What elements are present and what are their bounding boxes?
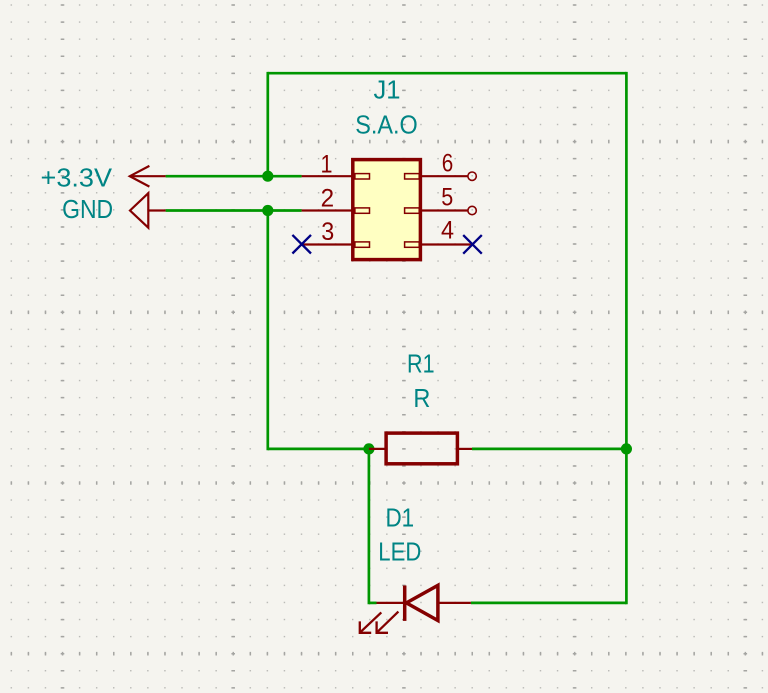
wire segment top horizontal	[268, 72, 627, 75]
connector J1 pin 1 notch	[355, 174, 370, 179]
wire segment right vertical	[625, 73, 628, 603]
resistor R1 right pin	[457, 448, 472, 450]
connector J1 pin 2 notch	[355, 208, 370, 213]
connector J1 body	[353, 160, 421, 260]
svg-text:3: 3	[321, 218, 334, 246]
svg-text:+3.3V: +3.3V	[41, 163, 113, 193]
svg-text:D1: D1	[385, 502, 414, 532]
connector J1 pin 3 notch	[355, 242, 370, 247]
svg-text:6: 6	[442, 150, 454, 178]
svg-text:2: 2	[321, 184, 335, 212]
connector J1 pin 6 notch	[405, 174, 420, 179]
svg-text:4: 4	[441, 216, 454, 244]
svg-text:J1: J1	[374, 75, 401, 105]
wire segment from +3.3V symbol to pin 1 of J1	[166, 175, 302, 178]
connector J1 pin 5 notch	[405, 208, 420, 213]
svg-text:GND: GND	[62, 194, 113, 224]
power symbol GND triangle	[130, 193, 166, 228]
pin 6 open-end circle	[468, 172, 476, 180]
wire segment from resistor right pin to right vertical	[472, 448, 626, 451]
no-connect X pin 3	[292, 235, 311, 254]
LED D1 emission arrow 1	[360, 612, 382, 632]
wire segment left vertical upper (node +3.3V up to top)	[266, 73, 269, 176]
wire segment from GND symbol to pin 2 of J1	[166, 209, 302, 212]
LED D1 cathode bar	[403, 586, 407, 621]
LED D1 emission arrow 2	[377, 612, 399, 633]
connector J1 pin 5 line	[420, 209, 468, 211]
wire segment left vertical lower (node GND down to resistor row)	[266, 211, 269, 449]
no-connect X pin 4	[463, 235, 482, 254]
svg-text:5: 5	[441, 184, 453, 212]
wire segment vertical from resistor left node down to LED cathode	[368, 449, 371, 603]
connector J1 pin 4 notch	[405, 242, 420, 247]
connector J1 pin 4 line	[420, 243, 471, 245]
connector J1 pin 3 line	[302, 243, 353, 245]
svg-text:1: 1	[321, 150, 333, 178]
wire segment bottom-left horizontal to resistor left node	[268, 448, 369, 451]
svg-text:LED: LED	[378, 537, 421, 567]
wire segment bottom-right horizontal to LED anode	[471, 602, 627, 605]
connector J1 pin 6 line	[420, 175, 468, 177]
connector J1 pin 2 line	[302, 209, 353, 211]
resistor R1 body	[386, 433, 457, 464]
junction at resistor right net	[621, 443, 632, 454]
junction at resistor left	[363, 443, 374, 454]
junction at GND	[262, 205, 273, 216]
LED D1 anode pin	[438, 602, 471, 604]
pin 5 open-end circle	[468, 206, 476, 214]
junction at +3.3V	[262, 171, 273, 182]
resistor R1 left pin	[369, 448, 386, 450]
LED D1 triangle	[406, 585, 438, 620]
svg-text:S.A.O: S.A.O	[355, 109, 418, 139]
connector J1 pin 1 line	[302, 175, 353, 177]
power symbol +3.3V arrow	[130, 166, 166, 187]
svg-text:R1: R1	[407, 349, 435, 379]
wire segment LED cathode stub	[369, 602, 377, 605]
LED D1 cathode pin	[377, 602, 404, 604]
svg-text:R: R	[413, 383, 430, 413]
